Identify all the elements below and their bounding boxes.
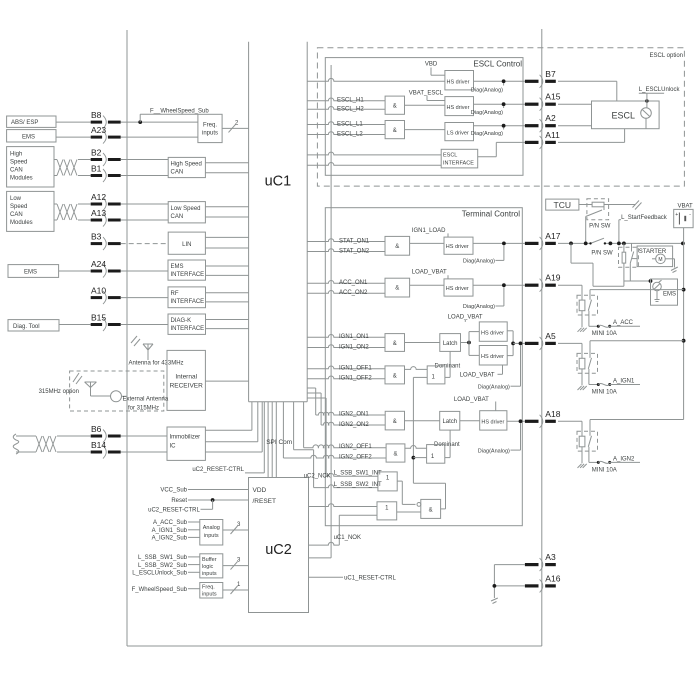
connector pin A13 (left) xyxy=(91,208,121,227)
net ACC_ON1 xyxy=(307,280,385,286)
svg-text:uC1_RESET-CTRL: uC1_RESET-CTRL xyxy=(344,576,396,582)
svg-text:LS driver: LS driver xyxy=(447,131,469,137)
net A_IGN1_Sub xyxy=(152,528,200,534)
AND gate ACC_ON xyxy=(385,278,410,297)
svg-text:HS driver: HS driver xyxy=(481,354,504,360)
svg-text:uC2: uC2 xyxy=(265,542,292,558)
svg-text:VDD: VDD xyxy=(253,487,267,494)
svg-text:&: & xyxy=(429,508,433,514)
svg-text:B2: B2 xyxy=(91,148,102,158)
net uC2_RESET-CTRL from uC1 xyxy=(192,402,264,473)
wire B6 to Immobilizer IC xyxy=(121,435,167,437)
svg-text:A_IGN1_Sub: A_IGN1_Sub xyxy=(152,528,188,534)
net VBD label xyxy=(425,62,445,76)
svg-text:L_SSB_SW1_INT: L_SSB_SW1_INT xyxy=(334,470,382,476)
wire pin feed to relay (A_ACC) xyxy=(558,285,582,300)
svg-text:A23: A23 xyxy=(91,125,106,135)
relay (dashed) A_IGN2 xyxy=(577,420,684,464)
AND gate IGN1_OFF xyxy=(385,366,405,384)
wire B8 to Freq inputs with junction xyxy=(121,120,198,124)
ground (relay A_IGN1) xyxy=(578,386,582,390)
svg-text:L_ESCLUnlock_Sub: L_ESCLUnlock_Sub xyxy=(132,571,187,577)
dashed box P/N SW upper xyxy=(587,199,609,220)
svg-text:/RESET: /RESET xyxy=(253,498,277,505)
wire LS CAN pair with twisted-pair symbol xyxy=(54,204,91,220)
net IGN2_ON1 xyxy=(307,388,385,418)
connector pin B8 (left) xyxy=(91,110,121,129)
wire A11 to ESCL box xyxy=(558,129,625,143)
wire LS driver to A2 with diag tap xyxy=(474,124,525,128)
svg-text:&: & xyxy=(393,104,397,110)
svg-text:ESCL_H1: ESCL_H1 xyxy=(337,98,364,104)
svg-text:HS driver: HS driver xyxy=(481,331,504,337)
svg-text:A5: A5 xyxy=(545,331,556,341)
AND gate STAT_ON xyxy=(385,236,410,255)
block EMS (engine) with sensor xyxy=(651,279,678,305)
net IGN2_OFF2 xyxy=(283,402,386,461)
net F_WheelSpeed_Sub xyxy=(132,587,200,593)
svg-text:inputs: inputs xyxy=(202,592,217,598)
wires RF INTERFACE to uC1 xyxy=(206,293,249,302)
connector pin A12 (left) xyxy=(91,192,121,211)
svg-text:A10: A10 xyxy=(91,286,106,296)
svg-text:Immobilizer: Immobilizer xyxy=(170,435,201,441)
wire break symbol xyxy=(633,201,642,210)
svg-text:F__WheelSpeed_Sub: F__WheelSpeed_Sub xyxy=(150,108,209,114)
svg-text:STAT_ON1: STAT_ON1 xyxy=(339,238,370,244)
svg-text:RECEIVER: RECEIVER xyxy=(170,383,204,390)
label Diag(Analog) (ACC_ON1) xyxy=(463,287,504,310)
svg-text:A_IGN2_Sub: A_IGN2_Sub xyxy=(152,536,188,542)
connector pin A2 (right) xyxy=(525,113,556,132)
net IGN1_ON2 xyxy=(307,344,385,350)
net LOAD_VBAT label (IGN1 lower) xyxy=(460,365,503,378)
svg-text:P/N SW: P/N SW xyxy=(589,224,611,230)
wire Freq inputs to uC2 bus width 1 xyxy=(223,582,249,594)
svg-text:A15: A15 xyxy=(545,92,560,102)
block RF INTERFACE xyxy=(168,287,206,308)
svg-text:ESCL_L2: ESCL_L2 xyxy=(337,132,363,138)
svg-text:Speed: Speed xyxy=(10,159,27,165)
connector pin B14 (left) xyxy=(91,440,121,459)
wire AND to HS driver (ACC_ON1) xyxy=(410,284,444,286)
svg-text:&: & xyxy=(393,128,397,134)
svg-text:L_ESCLUnlock: L_ESCLUnlock xyxy=(639,87,681,93)
svg-text:A_ACC: A_ACC xyxy=(613,320,634,326)
svg-text:Diag. Tool: Diag. Tool xyxy=(13,324,40,330)
net A_IGN2_Sub xyxy=(152,536,200,542)
AND gate IGN1_ON xyxy=(385,334,405,352)
battery VBAT xyxy=(674,203,693,243)
svg-text:INTERFACE: INTERFACE xyxy=(443,161,474,167)
svg-text:CAN: CAN xyxy=(171,214,184,220)
svg-text:L_SSB_SW2_INT: L_SSB_SW2_INT xyxy=(334,482,382,488)
wire ESCL INTERFACE to A11 xyxy=(478,142,525,156)
block Internal RECEIVER xyxy=(167,350,205,410)
AND gate IGN2_OFF xyxy=(386,444,405,462)
svg-text:uC2_NCK: uC2_NCK xyxy=(304,473,331,479)
svg-text:Speed: Speed xyxy=(10,204,27,210)
ECU boundary / connector line right edge (wire) xyxy=(541,29,543,646)
net STAT_ON1 xyxy=(307,238,385,244)
Latch (IGN2) xyxy=(440,411,460,430)
wire A13 to Low Speed CAN xyxy=(121,219,169,221)
net L_StartFeedback xyxy=(619,215,668,243)
block EMS INTERFACE xyxy=(168,260,206,280)
antenna for 433MHz xyxy=(129,336,184,367)
svg-text:IGN2_OFF1: IGN2_OFF1 xyxy=(339,444,372,450)
svg-text:Internal: Internal xyxy=(175,374,197,381)
wires HS drivers to A5 xyxy=(507,331,525,356)
wires LIN to uC1 xyxy=(205,237,248,248)
svg-text:Latch: Latch xyxy=(443,341,458,347)
module box EMS (lower) xyxy=(8,265,59,278)
wire Buffer logic to uC2 bus width 3 xyxy=(223,558,249,570)
svg-text:INTERFACE: INTERFACE xyxy=(171,299,205,305)
net STAT_ON2 xyxy=(307,248,385,254)
svg-text:Modules: Modules xyxy=(10,220,33,226)
microcontroller uC2 xyxy=(249,478,309,613)
HS driver (ESCL A15) xyxy=(445,97,474,116)
AND gate ESCL_H xyxy=(385,96,404,114)
VBAT rail xyxy=(682,243,686,419)
svg-text:INTERFACE: INTERFACE xyxy=(171,326,205,332)
AND gate with inverted input xyxy=(397,499,441,518)
block Immobilizer IC xyxy=(167,427,205,460)
wires EMS INTERFACE to uC1 xyxy=(206,266,249,275)
HS driver (IGN1 upper) xyxy=(479,322,507,341)
label Diag(Analog) B7 xyxy=(471,83,504,94)
svg-text:A11: A11 xyxy=(545,130,560,140)
connector pin A15 (right) xyxy=(525,92,561,111)
label Diag(Analog) (IGN1) xyxy=(478,346,521,391)
wire HS driver to B7 with diag tap xyxy=(474,79,525,83)
svg-text:&: & xyxy=(395,286,399,292)
svg-text:LOAD_VBAT: LOAD_VBAT xyxy=(412,270,447,276)
svg-text:IGN2_ON1: IGN2_ON1 xyxy=(339,412,369,418)
wire HS CAN pair with twisted-pair symbol xyxy=(54,160,91,176)
relay (dashed) A_IGN1 xyxy=(577,341,684,386)
svg-text:High Speed: High Speed xyxy=(171,162,202,168)
svg-text:HS driver: HS driver xyxy=(447,105,470,111)
svg-text:B6: B6 xyxy=(91,424,102,434)
svg-text:TCU: TCU xyxy=(554,200,571,210)
wire B2 to High Speed CAN xyxy=(121,159,169,161)
svg-text:A13: A13 xyxy=(91,208,106,218)
svg-text:ESCL Control: ESCL Control xyxy=(473,60,522,69)
svg-text:DIAG-K: DIAG-K xyxy=(171,318,192,324)
box ESCL Control xyxy=(325,58,523,176)
fuse MINI 10A (A_IGN2) xyxy=(592,456,640,473)
net ESCL_H1 xyxy=(307,98,385,104)
wire SSB gate to AND xyxy=(397,481,415,504)
svg-text:uC1: uC1 xyxy=(265,174,292,190)
svg-text:MINI 10A: MINI 10A xyxy=(592,389,617,395)
svg-text:ESCL_H2: ESCL_H2 xyxy=(337,107,364,113)
wire AND to Latch (IGN1) xyxy=(405,342,440,344)
wire Freq inputs to uC1 bus width 2 xyxy=(222,120,249,132)
svg-text:ACC_ON1: ACC_ON1 xyxy=(339,280,368,286)
wires DIAG-K INTERFACE to uC1 xyxy=(206,320,249,329)
module box Diag. Tool xyxy=(8,320,59,331)
svg-text:A24: A24 xyxy=(91,259,106,269)
svg-text:VBAT: VBAT xyxy=(678,203,694,209)
wire B14 to Immobilizer IC xyxy=(121,451,167,453)
connector pin B7 (right) xyxy=(525,69,556,88)
wire HS driver to A15 with diag tap xyxy=(474,102,525,106)
net uC1_NOK xyxy=(309,515,378,545)
net uC2_RESET-CTRL into reset node xyxy=(148,500,212,514)
svg-text:&: & xyxy=(395,244,399,250)
Dominant 1 gate (IGN2) xyxy=(427,442,460,463)
svg-text:IGN1_OFF2: IGN1_OFF2 xyxy=(339,376,372,382)
connector pin B2 (left) xyxy=(91,148,121,167)
HS driver (IGN1 lower) xyxy=(479,346,507,366)
module box Low Speed CAN Modules xyxy=(7,191,54,231)
svg-text:HS driver: HS driver xyxy=(447,79,470,85)
svg-text:B3: B3 xyxy=(91,232,102,242)
svg-text:High: High xyxy=(10,151,22,157)
svg-text:Reset: Reset xyxy=(171,498,187,504)
svg-text:A18: A18 xyxy=(545,409,560,419)
connector pin B1 (left) xyxy=(91,164,121,183)
wire Internal RECEIVER to uC1 xyxy=(205,380,248,382)
svg-text:ABS/ ESP: ABS/ ESP xyxy=(11,120,38,126)
svg-text:IC: IC xyxy=(170,444,177,450)
svg-text:L_StartFeedback: L_StartFeedback xyxy=(621,215,668,221)
wire A23 to Freq inputs xyxy=(121,136,198,138)
wire B3 to LIN (dashed) xyxy=(121,243,169,245)
wires A3 A16 grounded xyxy=(491,565,525,604)
svg-text:inputs: inputs xyxy=(204,533,219,539)
wire B1 to High Speed CAN xyxy=(121,175,169,177)
wire AND to Dominant (IGN1) xyxy=(405,367,428,370)
SPI Com bus uC1 to uC2 xyxy=(266,402,292,478)
net uC2_NCK vertical line xyxy=(309,65,332,558)
svg-text:Diag(Analog): Diag(Analog) xyxy=(478,384,510,390)
antenna for 315MHz (external) xyxy=(73,373,169,411)
svg-text:uC2_RESET-CTRL: uC2_RESET-CTRL xyxy=(192,467,244,473)
wire Diag Tool to B15 xyxy=(59,324,91,326)
wire AND to Latch (IGN2) xyxy=(405,420,440,422)
svg-text:Diag(Analog): Diag(Analog) xyxy=(471,88,503,94)
starter relay (dashed) xyxy=(619,243,639,286)
net VCC_Sub to uC2 VDD xyxy=(160,488,248,494)
wire AND to HS driver (STAT_ON1) xyxy=(410,242,444,244)
block ESCL INTERFACE xyxy=(441,149,478,168)
svg-text:ESCL: ESCL xyxy=(443,153,457,159)
svg-text:Diag(Analog): Diag(Analog) xyxy=(471,131,503,137)
wire AND output to Dominant gates xyxy=(412,377,446,509)
svg-text:Modules: Modules xyxy=(10,175,33,181)
ECU boundary left edge (wire) xyxy=(126,30,128,646)
svg-text:CAN: CAN xyxy=(10,212,23,218)
microcontroller uC1 xyxy=(249,42,308,402)
svg-text:P/N SW: P/N SW xyxy=(591,251,613,257)
svg-text:EMS: EMS xyxy=(24,270,37,276)
wires uC1 to ESCL INTERFACE xyxy=(307,152,441,165)
immobilizer base coil xyxy=(13,434,90,454)
ground (starter) xyxy=(671,259,678,273)
svg-text:A3: A3 xyxy=(545,552,556,562)
wire pin feed to relay (A_IGN2) xyxy=(558,421,582,436)
net L_SSB_SW1_Sub xyxy=(138,555,200,561)
label Diag(Analog) A15 xyxy=(471,106,504,116)
net L_SSB_SW2_INT xyxy=(294,402,382,488)
svg-text:F_WheelSpeed_Sub: F_WheelSpeed_Sub xyxy=(132,587,188,593)
svg-text:Latch: Latch xyxy=(442,419,457,425)
svg-text:B15: B15 xyxy=(91,313,106,323)
switch P/N SW upper xyxy=(586,205,611,244)
wire B7 to ESCL box xyxy=(558,81,617,101)
svg-text:Diag(Analog): Diag(Analog) xyxy=(478,448,510,454)
wire B15 to DIAG-K INTERFACE xyxy=(121,324,168,326)
dashed option box 315MHz xyxy=(70,371,164,411)
svg-text:External Antenna: External Antenna xyxy=(123,396,169,402)
net LOAD_VBAT label (IGN2) xyxy=(454,397,496,411)
svg-text:STARTER: STARTER xyxy=(639,249,667,255)
svg-text:&: & xyxy=(393,452,397,458)
svg-text:Low Speed: Low Speed xyxy=(171,206,201,212)
HS driver (STAT_ON1) xyxy=(444,237,473,254)
svg-text:VCC_Sub: VCC_Sub xyxy=(160,488,187,494)
svg-text:LIN: LIN xyxy=(182,242,191,248)
wires Immobilizer IC to uC1 (3 lines) xyxy=(205,402,262,452)
wire A12 to Low Speed CAN xyxy=(121,203,169,205)
connector pin A11 (right) xyxy=(525,130,560,149)
wire A2 to ESCL box xyxy=(558,125,592,127)
net IGN1_OFF2 xyxy=(307,376,385,382)
svg-text:for 315MHz: for 315MHz xyxy=(128,405,159,411)
wire ABS/ESP to B8 xyxy=(56,121,91,123)
svg-text:A16: A16 xyxy=(545,573,560,583)
net IGN2_ON2 xyxy=(307,393,385,428)
ESCL actuator box with motor xyxy=(592,99,660,128)
OR gate 1 (SSB) xyxy=(378,472,397,491)
wire A10 to RF INTERFACE xyxy=(121,297,168,299)
svg-text:ESCL option: ESCL option xyxy=(650,53,683,59)
wire Dominant to Latch reset (IGN1) xyxy=(445,351,450,377)
svg-text:ESCL_L1: ESCL_L1 xyxy=(337,121,363,127)
wire EMS to A23 xyxy=(56,136,91,138)
block DIAG-K INTERFACE xyxy=(168,314,206,334)
connector pin A17 (right) xyxy=(525,231,561,250)
svg-text:EMS: EMS xyxy=(663,292,676,298)
svg-text:L_SSB_SW2_Sub: L_SSB_SW2_Sub xyxy=(138,563,188,569)
svg-text:IGN2_ON2: IGN2_ON2 xyxy=(339,422,369,428)
net LOAD_VBAT label xyxy=(412,270,448,279)
svg-text:VBD: VBD xyxy=(425,62,438,68)
fuse MINI 10A (A_ACC) xyxy=(592,320,640,337)
connector pin A19 (right) xyxy=(525,273,561,292)
label Diag(Analog) A2 xyxy=(471,128,504,138)
wire Latch to HS drivers (IGN1) xyxy=(461,332,480,356)
svg-text:EMS: EMS xyxy=(171,264,184,270)
net Reset to uC2 /RESET xyxy=(171,498,248,504)
svg-text:A_IGN1: A_IGN1 xyxy=(613,378,635,384)
svg-text:Dominant: Dominant xyxy=(434,442,460,448)
svg-text:A2: A2 xyxy=(545,113,556,123)
HS driver (ACC_ON1) xyxy=(444,279,473,296)
label Diag(Analog) (STAT_ON1) xyxy=(463,245,504,264)
wires Low Speed CAN to uC1 xyxy=(205,207,248,217)
ECU boundary bottom edge (wire) xyxy=(127,645,542,647)
svg-text:A12: A12 xyxy=(91,192,106,202)
wire A15 to ESCL box xyxy=(558,103,592,105)
svg-text:Diag(Analog): Diag(Analog) xyxy=(463,258,495,264)
svg-text:IGN1_ON2: IGN1_ON2 xyxy=(339,344,369,350)
net L_SSB_SW1_INT xyxy=(307,398,382,476)
net ESCL_L1 xyxy=(307,121,385,127)
svg-text:A17: A17 xyxy=(545,231,560,241)
wire A17 branch to EMS xyxy=(571,243,652,286)
wire pin feed to relay (A_IGN1) xyxy=(558,343,582,358)
net IGN2_OFF1 xyxy=(304,402,387,450)
connector pin B15 (left) xyxy=(91,313,121,332)
connector pin A5 (right) xyxy=(525,331,556,350)
svg-text:uC2_RESET-CTRL: uC2_RESET-CTRL xyxy=(148,508,200,514)
svg-text:Diag(Analog): Diag(Analog) xyxy=(463,304,495,310)
block LIN xyxy=(168,232,205,254)
block Buffer logic inputs (uC2) xyxy=(200,554,223,578)
svg-text:B7: B7 xyxy=(545,69,556,79)
wire Latch to HS driver (IGN2) xyxy=(460,420,480,422)
block TCU xyxy=(546,199,579,210)
label Diag(Analog) (IGN2) xyxy=(478,423,521,454)
svg-text:B14: B14 xyxy=(91,440,106,450)
resistor (P/N pull) xyxy=(592,202,604,207)
module box EMS (top) xyxy=(7,130,56,142)
svg-text:MINI 10A: MINI 10A xyxy=(592,467,617,473)
net L_ESCLUnlock xyxy=(639,87,681,101)
Latch (IGN1) xyxy=(440,334,461,352)
svg-text:uC1_NOK: uC1_NOK xyxy=(334,535,361,541)
wire uC1 to HS driver (B7) xyxy=(307,78,445,81)
wire Analog inputs to uC2 bus width 3 xyxy=(223,522,249,534)
block Low Speed CAN xyxy=(168,202,205,223)
svg-text:IGN1_OFF1: IGN1_OFF1 xyxy=(339,365,372,371)
svg-text:INTERFACE: INTERFACE xyxy=(171,272,205,278)
svg-text:A_ACC_Sub: A_ACC_Sub xyxy=(153,520,188,526)
wire resistor to break xyxy=(604,204,635,206)
dashed box ESCL option xyxy=(317,48,684,186)
svg-text:Diag(Analog): Diag(Analog) xyxy=(471,110,503,116)
svg-text:M: M xyxy=(658,257,662,263)
svg-text:CAN: CAN xyxy=(10,167,23,173)
svg-text:315MHz option: 315MHz option xyxy=(39,389,79,395)
relay (dashed) A_ACC xyxy=(577,290,684,328)
net IGN1_LOAD label xyxy=(412,228,448,237)
net L_ESCLUnlock_Sub xyxy=(132,571,200,577)
wire Dominant to Latch reset (IGN2) xyxy=(445,430,450,458)
wire HS driver to pin (ACC_ON1) xyxy=(473,283,525,287)
connector pin A24 (left) xyxy=(91,259,121,278)
wires High Speed CAN to uC1 xyxy=(205,163,248,173)
svg-text:CAN: CAN xyxy=(171,170,184,176)
connector pin B6 (left) xyxy=(91,424,121,443)
net ACC_ON2 xyxy=(307,290,385,296)
block High Speed CAN xyxy=(168,157,205,177)
svg-text:L_SSB_SW1_Sub: L_SSB_SW1_Sub xyxy=(138,555,188,561)
wire HS driver to pin (STAT_ON1) xyxy=(473,242,525,246)
svg-text:IGN2_OFF2: IGN2_OFF2 xyxy=(339,455,372,461)
connector pin A23 (left) xyxy=(91,125,121,144)
module box High Speed CAN Modules xyxy=(7,147,54,187)
wire A24 to EMS INTERFACE xyxy=(121,270,168,272)
block Freq. inputs (uC2) xyxy=(200,583,223,599)
net VBAT_ESCL label xyxy=(409,91,445,101)
svg-text:HS driver: HS driver xyxy=(446,244,469,250)
